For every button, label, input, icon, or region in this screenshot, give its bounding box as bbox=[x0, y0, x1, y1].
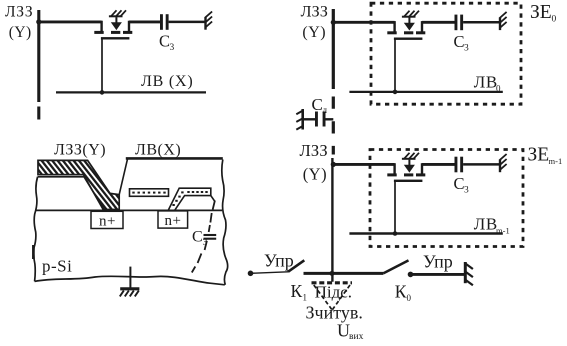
ЛВ(X) conductor ramp and bar 2 (dotted fill) bbox=[168, 188, 211, 210]
wire from К1 terminal bbox=[251, 272, 289, 274]
n+ region 2 bbox=[158, 211, 188, 229]
svg-text:ЛВ (X): ЛВ (X) bbox=[141, 73, 194, 90]
wire: Cл to ЛЗЗ line bbox=[326, 118, 334, 120]
svg-text:n+: n+ bbox=[165, 213, 182, 229]
svg-text:К: К bbox=[291, 281, 303, 301]
svg-text:n+: n+ bbox=[99, 214, 116, 230]
select line ЛЗЗ dashed continuation (top-left) bbox=[37, 107, 40, 120]
chassis ground (hatched wall) of Q2 bbox=[500, 12, 507, 30]
wire: ЛЗЗ line to source of Q3 bbox=[333, 163, 394, 166]
svg-text:ЗЕ: ЗЕ bbox=[530, 2, 552, 23]
bit line ЛВ0 bbox=[349, 91, 502, 93]
svg-text:Зчитув.: Зчитув. bbox=[306, 303, 363, 323]
svg-text:C: C bbox=[454, 32, 465, 51]
select line ЛЗЗ dashed middle section bbox=[332, 97, 335, 155]
terminal dot of switch К0 bbox=[408, 272, 414, 278]
select line ЛЗЗ solid lower section down to switches bbox=[331, 158, 333, 282]
wire: C3 of Q3 to chassis bbox=[463, 163, 500, 166]
svg-text:3: 3 bbox=[464, 186, 469, 196]
svg-text:m-1: m-1 bbox=[496, 226, 510, 236]
bit line ЛВ (X) (top-left) bbox=[56, 91, 206, 93]
label ЗЕm-1 bbox=[528, 145, 563, 167]
svg-text:m-1: m-1 bbox=[549, 156, 563, 166]
wire: gate of Q3 down to bit line bbox=[394, 180, 396, 233]
dashed top bar of sense amplifier bbox=[312, 281, 353, 284]
svg-text:Упр: Упр bbox=[264, 251, 294, 271]
wire: chassis to Cл bbox=[303, 118, 316, 120]
svg-text:ЛВ(X): ЛВ(X) bbox=[135, 142, 181, 159]
wire: ЛЗЗ line to source of Q2 bbox=[333, 21, 394, 24]
common wire between switches bbox=[304, 272, 384, 275]
wire: ЛЗЗ line to source of Q1 bbox=[39, 20, 102, 23]
label ЛВ0 bbox=[474, 73, 501, 94]
wire: drain of Q1 to C3 bbox=[129, 20, 160, 23]
label К1 bbox=[291, 281, 308, 303]
switch К1 lever bbox=[288, 260, 304, 272]
ground symbol (cross-section) bbox=[120, 289, 140, 297]
n+ region 1 bbox=[91, 211, 123, 229]
svg-text:p-Si: p-Si bbox=[42, 257, 72, 276]
chassis ground (hatched wall) of Q1 bbox=[205, 12, 212, 30]
right jagged edge of p-Si block bbox=[222, 160, 228, 285]
chassis ground (hatched wall) right of К0 bbox=[465, 262, 473, 285]
left jagged edge of p-Si block bbox=[34, 177, 38, 282]
transistor Q1 (MOS with substrate arrow) bbox=[94, 10, 132, 39]
bottom jagged edge of p-Si block bbox=[35, 276, 225, 285]
wire: drain of Q2 to C3 bbox=[422, 21, 455, 24]
junction node at ЛЗЗ and switch wire bbox=[330, 271, 335, 276]
junction node on ЛЗЗ at Q2 bbox=[331, 20, 336, 25]
svg-text:0: 0 bbox=[552, 15, 557, 25]
svg-text:C: C bbox=[454, 174, 465, 193]
wire: C3 of Q2 to chassis bbox=[463, 21, 500, 24]
svg-text:(Y): (Y) bbox=[302, 24, 326, 41]
ground stem (cross-section) bbox=[129, 267, 131, 289]
top surface line of ЛВ(X) region bbox=[126, 157, 223, 160]
svg-text:3: 3 bbox=[464, 44, 469, 54]
capacitor C3 (cross-section, horizontal plates) bbox=[204, 235, 217, 239]
terminal dot of switch К1 bbox=[248, 271, 254, 277]
svg-text:1: 1 bbox=[303, 293, 308, 303]
dotted box of storage cell ЗЕm-1 bbox=[370, 150, 523, 247]
junction node on ЛЗЗ at Q1 bbox=[36, 19, 41, 24]
svg-text:Підс.: Підс. bbox=[315, 283, 352, 302]
dashed triangle right side of sense amplifier bbox=[332, 285, 350, 310]
capacitor C3 of Q3 bbox=[455, 157, 464, 173]
svg-text:ЛВ: ЛВ bbox=[474, 73, 498, 92]
bit line ЛВm-1 bbox=[349, 232, 502, 234]
chassis ground (hatched wall) of Q3 bbox=[500, 154, 507, 172]
label Uвих bbox=[337, 321, 364, 343]
wire: drain of Q3 to C3 bbox=[422, 163, 455, 166]
chassis ground (hatched wall) of Cл bbox=[296, 109, 303, 130]
label C3 (cross-section) bbox=[192, 229, 208, 249]
label C3 of Q2 bbox=[454, 32, 470, 53]
junction node on bit line of Q3 bbox=[393, 231, 398, 236]
transistor Q2 (MOS with substrate arrow) bbox=[387, 11, 425, 40]
svg-text:К: К bbox=[395, 282, 407, 302]
label ЗЕ0 bbox=[530, 2, 557, 25]
capacitor Cл (line capacitance) bbox=[315, 112, 326, 127]
svg-text:(Y): (Y) bbox=[9, 24, 32, 41]
silicon surface line bbox=[35, 209, 222, 211]
label К0 bbox=[395, 282, 412, 304]
svg-text:3: 3 bbox=[203, 238, 208, 248]
select line ЛЗЗ(Y) vertical wire (top-left) bbox=[37, 10, 40, 102]
switch К0 lever bbox=[384, 260, 409, 273]
svg-text:0: 0 bbox=[496, 84, 501, 94]
label Cл bbox=[312, 95, 328, 115]
ЛЗЗ(Y) polysilicon electrode (hatched) bbox=[38, 160, 119, 209]
svg-text:Упр: Упр bbox=[423, 252, 453, 272]
svg-text:3: 3 bbox=[170, 43, 175, 53]
svg-text:C: C bbox=[192, 229, 203, 246]
capacitor C3 of Q2 bbox=[455, 15, 464, 31]
transistor Q3 (MOS with substrate arrow) bbox=[387, 153, 425, 182]
svg-text:ЛЗЗ: ЛЗЗ bbox=[300, 141, 328, 160]
junction node on bit line of Q1 bbox=[100, 90, 105, 95]
svg-text:л: л bbox=[323, 105, 328, 115]
label C3 of Q3 bbox=[454, 174, 470, 195]
ЛВ(X) conductor bar 1 (dotted fill) bbox=[130, 189, 169, 197]
wire: C3 of Q1 to chassis bbox=[169, 21, 206, 24]
svg-text:ЛВ: ЛВ bbox=[474, 215, 498, 234]
svg-text:ЗЕ: ЗЕ bbox=[528, 145, 550, 166]
svg-text:ЛЗЗ(Y): ЛЗЗ(Y) bbox=[54, 142, 106, 159]
wire from К0 to chassis bbox=[411, 273, 465, 276]
dashed triangle left side of sense amplifier bbox=[314, 285, 332, 310]
svg-text:ЛЗЗ: ЛЗЗ bbox=[301, 3, 328, 20]
label ЛВm-1 bbox=[474, 215, 510, 236]
wire: gate of Q1 down to bit line bbox=[101, 38, 103, 93]
svg-text:0: 0 bbox=[407, 293, 412, 303]
dashed depletion boundary of C3 bbox=[192, 201, 215, 273]
svg-text:C: C bbox=[159, 32, 170, 51]
junction node on ЛЗЗ at Q3 bbox=[331, 162, 336, 167]
svg-text:(Y): (Y) bbox=[303, 165, 327, 184]
oxide step line under ЛЗЗ electrode bbox=[38, 177, 105, 210]
svg-text:вих: вих bbox=[349, 332, 364, 342]
groove right side line bbox=[119, 159, 127, 195]
wire: gate of Q2 down to bit line bbox=[394, 38, 396, 92]
stub from bar 2 to depletion edge bbox=[211, 196, 215, 202]
capacitor C3 of Q1 bbox=[160, 14, 169, 30]
junction node on bit line of Q2 bbox=[393, 90, 398, 95]
thick tick on left edge bbox=[32, 245, 35, 259]
select line ЛЗЗ(Y) vertical wire (right, solid top) bbox=[332, 9, 335, 89]
svg-text:ЛЗЗ: ЛЗЗ bbox=[5, 3, 33, 20]
dotted box of storage cell ЗЕ0 bbox=[371, 3, 521, 104]
label C3 of Q1 bbox=[159, 32, 175, 53]
